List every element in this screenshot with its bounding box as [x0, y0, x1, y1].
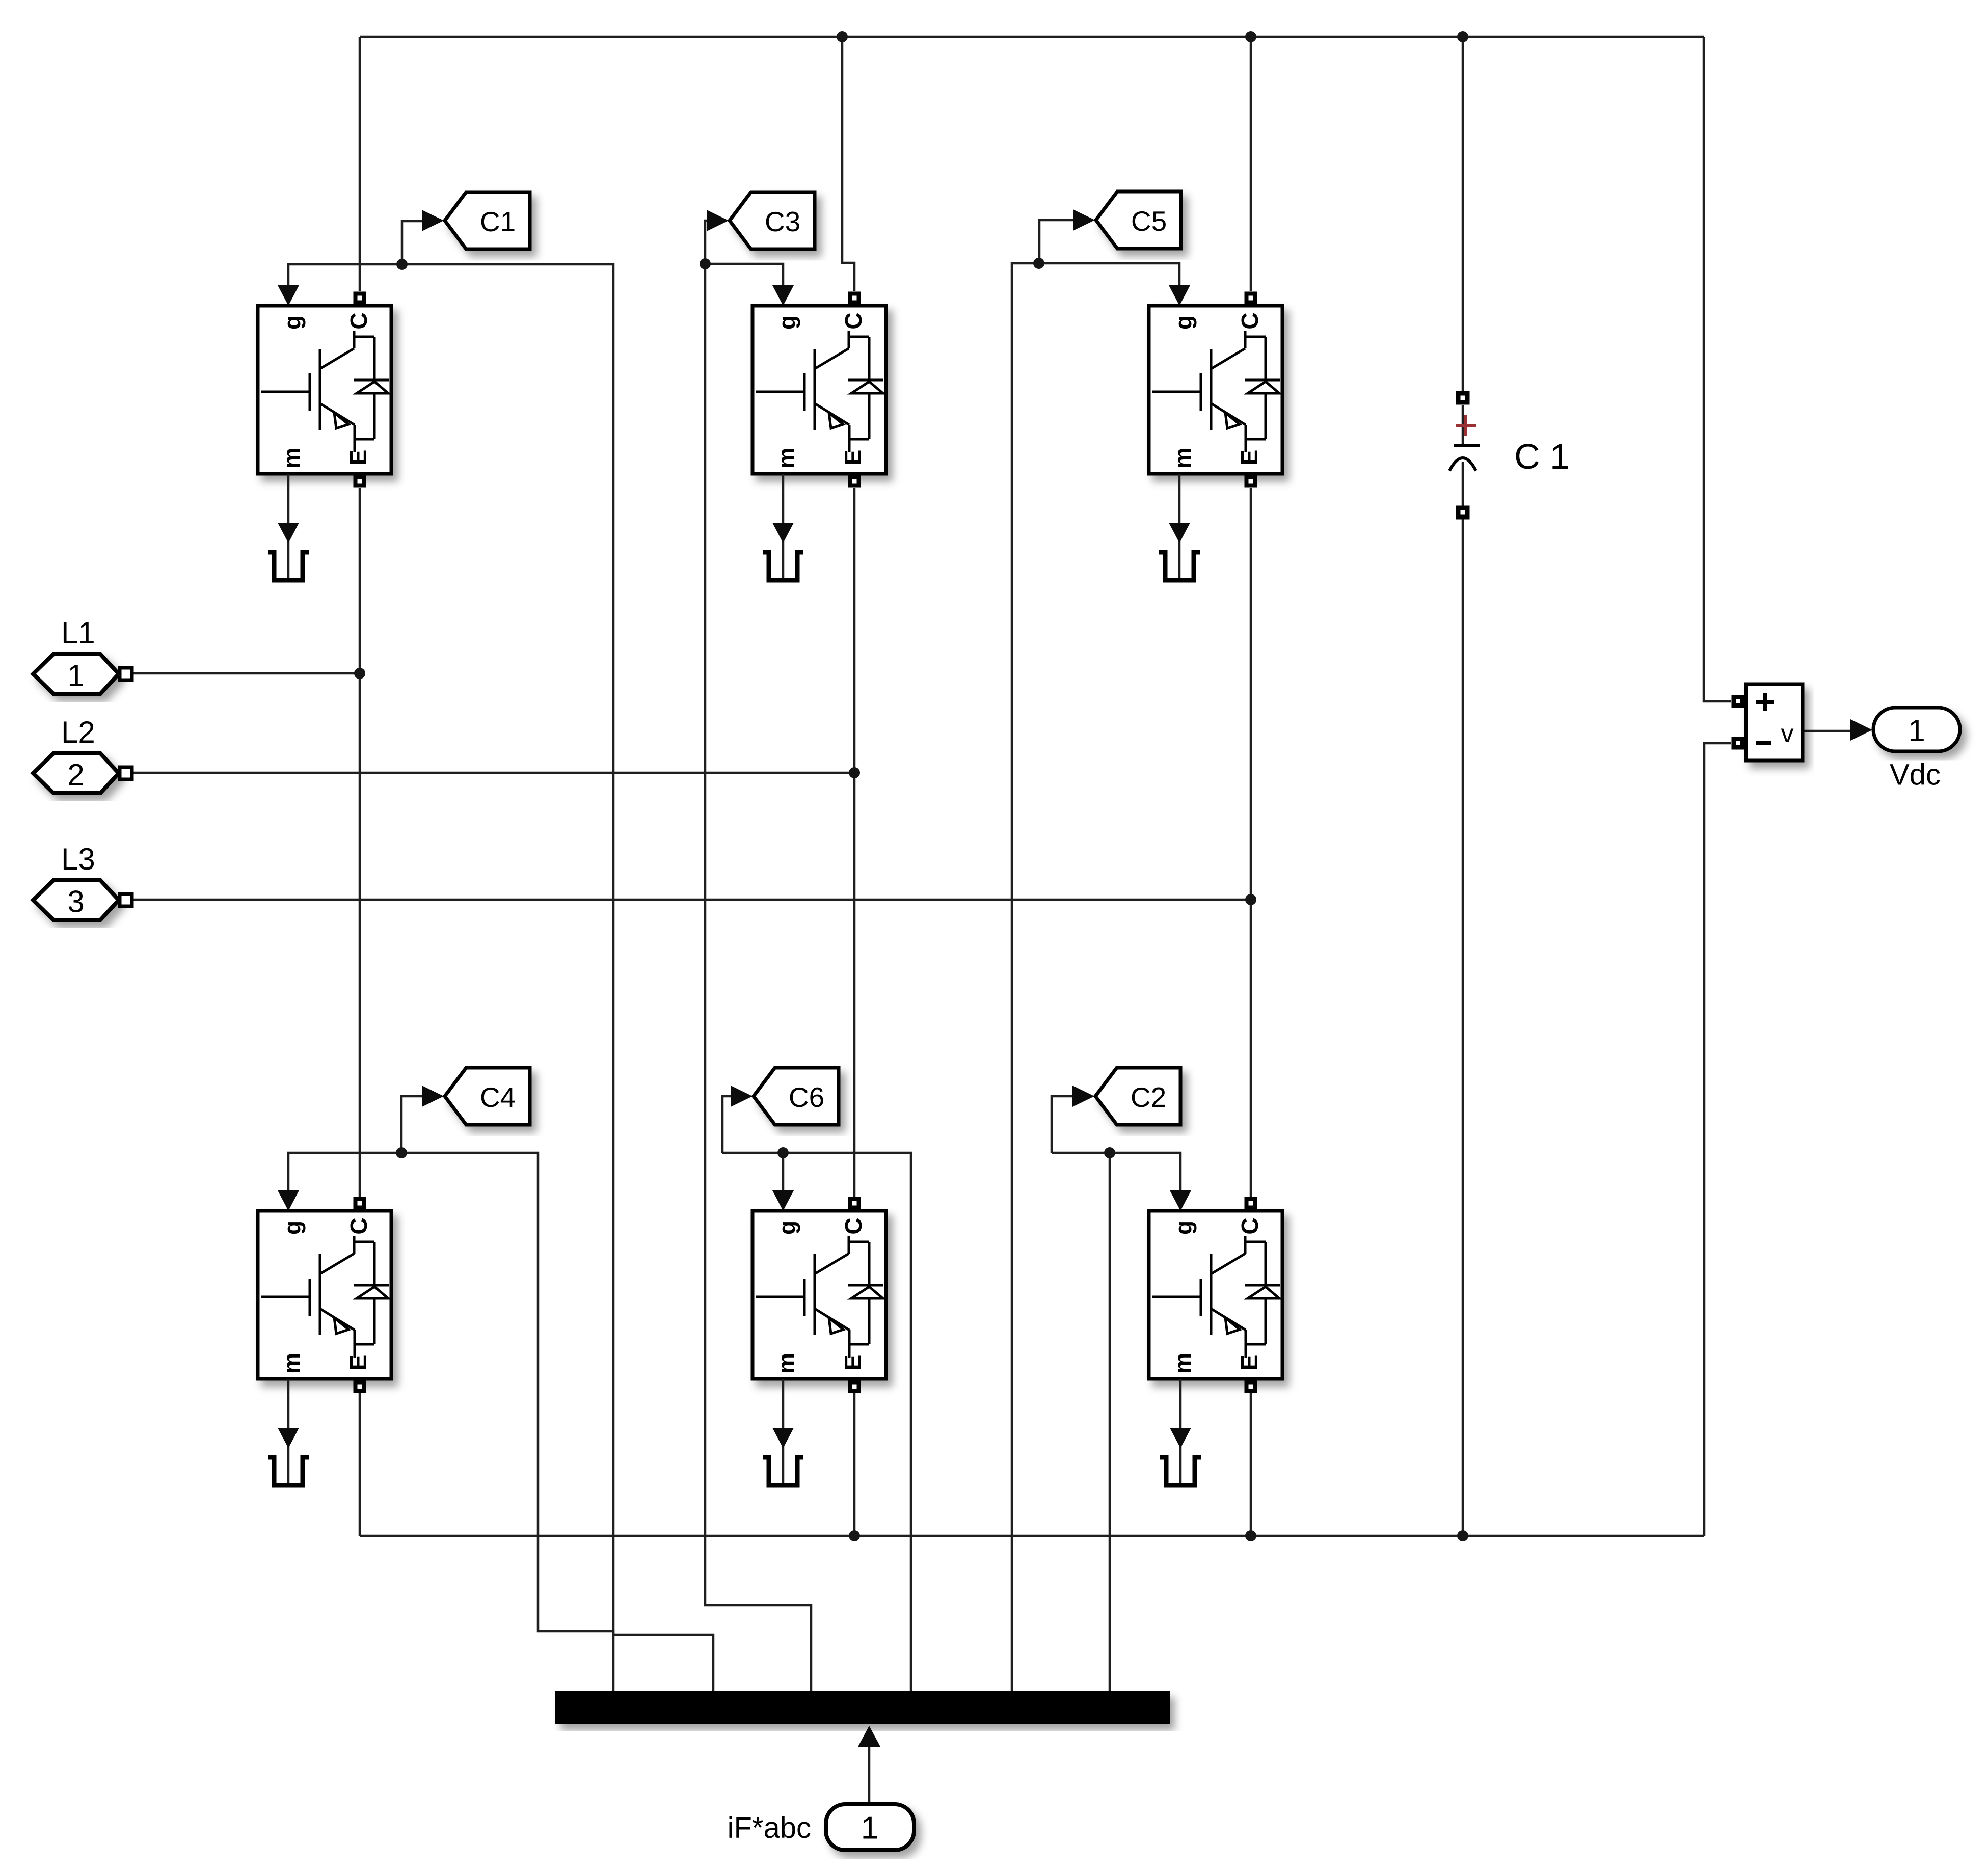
Q2 emitter port E	[1245, 1380, 1257, 1393]
IGBT/Diode block Q5 (top row phase 3, gate C5)	[1149, 306, 1282, 474]
input port 2 (L2)	[33, 753, 119, 793]
svg-text:m: m	[278, 1353, 305, 1374]
IGBT/Diode block Q6 (bottom row phase 2, gate C6)	[753, 1211, 886, 1379]
Q5 emitter port E	[1245, 475, 1257, 488]
svg-text:L2: L2	[61, 715, 95, 749]
svg-text:2: 2	[67, 758, 84, 792]
svg-text:1: 1	[1908, 714, 1925, 748]
svg-text:C: C	[1237, 1217, 1263, 1234]
arrow into goto C5	[1073, 209, 1095, 231]
arrow into Q6 gate	[772, 1190, 794, 1211]
Goto tag C2	[1095, 1068, 1180, 1125]
wire: phase 2 midpoint column (Q3 E to Q6 C)	[853, 488, 856, 1197]
wire: bus drop to capacitor C1 top	[1462, 37, 1464, 391]
demux bus bar (black)	[555, 1691, 1170, 1724]
wire: C1 goto branch riser	[402, 221, 423, 264]
arrow into Vdc outport	[1850, 719, 1872, 741]
Q4 emitter port E	[354, 1380, 366, 1393]
svg-text:3: 3	[67, 885, 84, 919]
svg-text:C4: C4	[480, 1081, 516, 1113]
wire: phase 3 midpoint column (Q5 E to Q2 C)	[1250, 488, 1252, 1197]
svg-text:E: E	[840, 1355, 866, 1371]
svg-text:g: g	[774, 1220, 800, 1235]
svg-text:1: 1	[861, 1811, 878, 1846]
IGBT/Diode block Q3 (top row phase 2, gate C3)	[753, 306, 886, 474]
junction node rail / phase 2	[849, 1530, 860, 1541]
arrow into goto C6	[731, 1086, 753, 1107]
wire: L2 input to phase 2 midpoint	[132, 772, 854, 774]
wire: Q2 emitter to negative rail	[1250, 1393, 1252, 1536]
svg-text:C: C	[1237, 312, 1263, 329]
junction node rail / phase 3	[1245, 1530, 1256, 1541]
capacitor C1 bottom port	[1456, 506, 1470, 520]
terminator under Q1 m	[287, 474, 290, 578]
junction node on top bus at phase 3	[1245, 31, 1256, 42]
port 3 connector square	[120, 894, 132, 906]
port 1 connector square	[120, 668, 132, 680]
input port 1 (L1)	[33, 654, 119, 694]
voltage measurement + port	[1732, 695, 1744, 708]
svg-text:C: C	[840, 312, 867, 329]
junction node gate C3	[700, 258, 711, 269]
junction node L2 / phase 2	[849, 767, 860, 778]
arrow into Q1 gate	[278, 285, 299, 306]
capacitor C1 top port	[1456, 391, 1470, 405]
svg-text:m: m	[773, 448, 799, 469]
wire: capacitor C1 bottom to negative rail	[1462, 519, 1464, 1536]
Q3 emitter port E	[848, 475, 861, 488]
Q5 collector port C	[1245, 292, 1257, 305]
svg-text:g: g	[774, 315, 800, 330]
wire: bus drop to Q3 collector (with jog)	[842, 37, 854, 291]
terminator under Q2 m	[1179, 1379, 1182, 1483]
wire: phase 1 midpoint column (Q1 E to Q4 C)	[359, 488, 361, 1197]
arrow into Q5 gate	[1169, 285, 1190, 306]
junction node gate C5	[1033, 258, 1044, 269]
junction node rail / capacitor	[1457, 1530, 1468, 1541]
wire: bottom negative rail	[360, 1535, 1704, 1537]
capacitor C1 polarity + (dark red)	[1456, 415, 1476, 436]
wire: C2 goto branch riser	[1052, 1096, 1075, 1153]
input port 3 (L3)	[33, 880, 119, 920]
wire: top DC bus (positive rail)	[360, 36, 1704, 38]
wire: C5 goto branch riser	[1039, 220, 1075, 263]
junction node gate C2	[1104, 1147, 1115, 1158]
IGBT/Diode block Q4 (bottom row phase 1, gate C4)	[258, 1211, 391, 1379]
svg-text:g: g	[279, 1220, 306, 1235]
wire: iF*abc inport up to demux	[868, 1732, 871, 1804]
input port 1 (iF*abc)	[826, 1804, 914, 1850]
Q6 emitter port E	[848, 1380, 861, 1393]
svg-text:C: C	[345, 1217, 372, 1234]
capacitor C1	[1462, 405, 1464, 446]
svg-text:g: g	[1170, 1220, 1197, 1235]
wire: C4 goto branch riser	[401, 1096, 423, 1153]
wire: gate feed C5 (riser from demux to Q5 gate)	[1012, 263, 1179, 1691]
wire: gate feed C4 (riser from demux to Q4 gate)	[288, 1153, 613, 1691]
svg-text:E: E	[1236, 450, 1262, 466]
svg-text:C5: C5	[1131, 205, 1167, 237]
junction node on top bus at phase 2	[837, 31, 848, 42]
wire: voltage measurement output to Vdc outport	[1804, 730, 1852, 732]
svg-text:C2: C2	[1131, 1081, 1166, 1113]
voltage measurement - port	[1732, 737, 1744, 750]
svg-text:m: m	[1169, 448, 1196, 469]
Q2 collector port C	[1245, 1197, 1257, 1210]
arrow into goto C1	[422, 210, 444, 231]
wire: bus drop to Q1 collector	[359, 37, 361, 291]
Q1 collector port C	[354, 292, 366, 305]
junction node gate C4	[396, 1147, 407, 1158]
svg-text:1: 1	[67, 659, 84, 693]
terminator under Q5 m	[1178, 474, 1181, 578]
svg-text:E: E	[345, 450, 371, 466]
terminator under Q6 m	[782, 1379, 785, 1483]
wire: gate feed C2 (riser from demux to Q2 gate)	[1052, 1153, 1180, 1691]
Q3 collector port C	[848, 292, 861, 305]
wire: gate feed C6 (riser from demux to Q6 gate)	[722, 1153, 911, 1691]
junction node gate C1	[396, 259, 408, 270]
wire: C6 goto branch riser	[722, 1096, 734, 1153]
junction node gate C6	[777, 1147, 789, 1158]
wire: L1 input to phase 1 midpoint	[132, 672, 360, 675]
svg-text:E: E	[345, 1355, 371, 1371]
Q6 collector port C	[848, 1197, 861, 1210]
svg-text:C1: C1	[480, 206, 516, 237]
svg-text:L3: L3	[61, 842, 95, 876]
wire: Q6 emitter to negative rail	[853, 1393, 856, 1536]
svg-text:C3: C3	[765, 206, 800, 237]
Goto tag C1	[445, 192, 530, 249]
Goto tag C4	[445, 1068, 530, 1125]
svg-text:C: C	[345, 312, 372, 329]
arrow from iF*abc into demux	[858, 1726, 880, 1747]
svg-text:E: E	[840, 450, 866, 466]
IGBT/Diode block Q1 (top row phase 1, gate C1)	[258, 306, 391, 474]
terminator under Q4 m	[287, 1379, 290, 1483]
svg-text:C 1: C 1	[1514, 437, 1570, 476]
port 2 connector square	[120, 767, 132, 779]
arrow into goto C3	[707, 210, 729, 231]
svg-text:m: m	[1169, 1353, 1196, 1374]
svg-text:C6: C6	[789, 1081, 824, 1113]
IGBT/Diode block Q2 (bottom row phase 3, gate C2)	[1149, 1211, 1282, 1379]
wire: L3 input to phase 3 midpoint	[132, 899, 1251, 901]
svg-text:g: g	[279, 315, 306, 330]
output port 1 (Vdc)	[1873, 708, 1960, 751]
terminator under Q3 m	[782, 474, 785, 578]
wire: gate feed C1 (riser from demux, horizontal to Q1 gate)	[288, 264, 713, 1691]
svg-text:E: E	[1236, 1355, 1262, 1371]
svg-text:iF*abc: iF*abc	[728, 1811, 811, 1844]
Goto tag C5	[1096, 192, 1181, 249]
wire: voltage measurement - input down to negative rail	[1704, 743, 1731, 1536]
svg-text:g: g	[1170, 315, 1197, 330]
wire: Q4 emitter to negative rail	[359, 1393, 361, 1536]
junction node on top bus at capacitor	[1457, 31, 1468, 42]
arrow into goto C4	[422, 1086, 444, 1107]
arrow into Q4 gate	[278, 1190, 299, 1211]
junction node L3 / phase 3	[1245, 894, 1256, 905]
voltage measurement block U1	[1746, 684, 1803, 761]
arrow into Q3 gate	[772, 285, 794, 306]
svg-text:Vdc: Vdc	[1890, 758, 1941, 792]
svg-text:v: v	[1781, 719, 1794, 748]
junction node L1 / phase 1	[354, 668, 365, 679]
arrow into Q2 gate	[1170, 1190, 1191, 1211]
wire: bus right end down to voltage measurement + input	[1704, 37, 1731, 701]
Goto tag C6	[754, 1068, 839, 1125]
wire: gate feed C3 (riser from demux to Q3 gate)	[705, 264, 811, 1691]
svg-text:L1: L1	[61, 616, 95, 650]
Goto tag C3	[730, 192, 815, 249]
wire: bus drop to Q5 collector	[1250, 37, 1252, 291]
Q1 emitter port E	[354, 475, 366, 488]
arrow into goto C2	[1072, 1086, 1094, 1107]
svg-text:m: m	[773, 1353, 799, 1374]
wire: C3 goto branch riser	[705, 221, 709, 264]
Q4 collector port C	[354, 1197, 366, 1210]
svg-text:m: m	[278, 448, 305, 469]
svg-text:C: C	[840, 1217, 867, 1234]
